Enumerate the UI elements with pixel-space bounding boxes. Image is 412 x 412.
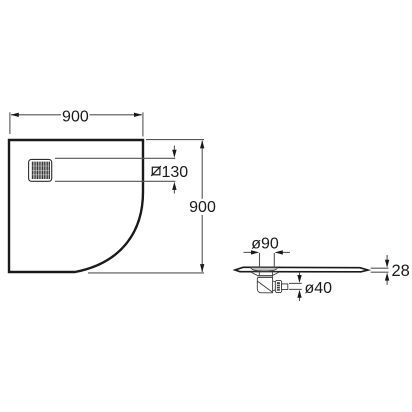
outlet stub [282, 284, 288, 290]
svg-text:28: 28 [392, 262, 410, 280]
arrow right of top 900 [134, 113, 142, 117]
dim o90 left tail + arrow [244, 251, 253, 253]
svg-text:900: 900 [189, 199, 216, 216]
dim 28 top arrow (points down) [386, 255, 388, 260]
svg-text:ø40: ø40 [305, 280, 333, 297]
svg-text:130: 130 [162, 164, 189, 181]
dimension 900 (right) dim line [201, 141, 203, 199]
dim o40 extension lines [289, 282, 302, 284]
trap outlet circle [269, 281, 278, 290]
dim o40 bottom arrow (points up) [299, 297, 301, 302]
dim o40 top arrow (points down) [299, 273, 301, 277]
dim o90 extension lines [259, 253, 261, 267]
arrow above (points down to top line) [173, 146, 175, 152]
svg-text:ø90: ø90 [251, 236, 279, 253]
trap inlet pipe [259, 272, 272, 277]
drain grate hatch [32, 162, 49, 179]
grate hatch horizontal breaks [32, 166, 50, 175]
dim 28 bottom arrow (points up) [386, 280, 388, 285]
dimension 900 (top) dim line [11, 114, 61, 116]
tray outline (900x900 quarter-circle tray) [9, 140, 143, 272]
trap body [257, 276, 272, 292]
nut knurl strip [277, 282, 280, 291]
dim o90 right tail + arrow [282, 251, 290, 253]
square-slash symbol of 130 [151, 166, 161, 176]
trap diagonal [258, 281, 273, 292]
dim 130 reference line bottom [55, 180, 175, 182]
flange under tray [250, 272, 279, 276]
dimension 900 (right) bottom extension line [88, 272, 204, 274]
dimension 900 (right) top extension line [146, 139, 204, 141]
outlet nut [275, 280, 281, 292]
drain grate outer frame [29, 159, 52, 181]
arrow down of right 900 [200, 264, 204, 272]
arrow below (points up to bottom line) [173, 189, 175, 194]
tray profile (side) [235, 267, 368, 272]
drain dome (gray) [251, 267, 278, 271]
svg-text:900: 900 [62, 108, 89, 125]
dim 28 extension lines [371, 267, 389, 269]
arrow up of right 900 [200, 140, 204, 148]
dim 130 reference line top [55, 157, 175, 159]
arrow left of top 900 [11, 113, 19, 117]
dimension 900 (top) extension line right [142, 112, 144, 136]
dimension 900 (top) extension line left [9, 112, 11, 134]
